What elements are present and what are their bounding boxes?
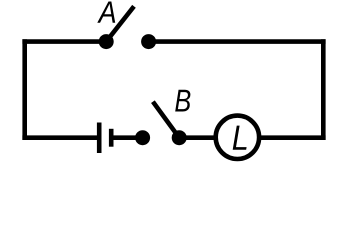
wire: right vertical segment (321, 39, 326, 140)
switch B: pivot dot (right terminal) (172, 130, 187, 145)
label B (175, 90, 190, 112)
label L (lamp) (233, 126, 247, 150)
battery cell: long plate (97, 123, 102, 154)
battery cell: short plate (109, 129, 114, 147)
switch A: blade (open, up-right) (106, 6, 134, 41)
lamp U1: circle body (216, 116, 259, 159)
switch B: blade (open, up-left) (153, 102, 179, 138)
wire: bottom-left horizontal segment (corner to battery) (22, 135, 97, 140)
wire: lamp to bottom-right corner (259, 135, 326, 140)
switch A: pivot dot (left terminal) (99, 34, 114, 49)
label A (97, 2, 115, 23)
wire: left vertical segment (22, 39, 27, 140)
wire: switch B to lamp (179, 135, 216, 140)
wire: top-left horizontal segment (22, 39, 106, 44)
switch B: left terminal dot (135, 130, 150, 145)
wire: top-right horizontal segment (149, 39, 326, 44)
wire: battery to switch B (111, 135, 142, 140)
switch A: right terminal dot (141, 34, 156, 49)
